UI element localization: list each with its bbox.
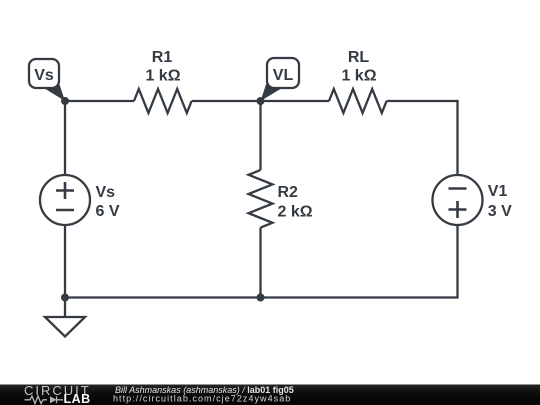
svg-text:Vs: Vs — [34, 67, 54, 84]
wire R1 to node VL — [192, 100, 261, 102]
wire source Vs to bottom node — [64, 225, 66, 298]
svg-text:V1: V1 — [488, 183, 508, 200]
logo schematic squiggle — [25, 396, 64, 404]
voltage source Vs — [40, 175, 90, 225]
resistor R2 — [249, 170, 273, 228]
wire right vertical: corner down to source V1 — [456, 100, 458, 175]
svg-text:3 V: 3 V — [488, 203, 512, 220]
wire left vertical: node Vs down to source Vs — [64, 100, 66, 175]
svg-text:RL: RL — [348, 49, 370, 66]
wire R2 to bottom node — [259, 228, 261, 298]
voltage source V1 — [433, 175, 483, 225]
svg-text:1 kΩ: 1 kΩ — [145, 68, 180, 85]
wire node VL to RL — [261, 100, 330, 102]
svg-text:VL: VL — [273, 67, 294, 84]
resistor R1 — [134, 89, 192, 113]
svg-text:1 kΩ: 1 kΩ — [341, 68, 376, 85]
footer bar — [0, 385, 540, 405]
ground — [45, 298, 85, 337]
svg-text:Vs: Vs — [96, 184, 116, 201]
node dot Vs — [61, 97, 69, 105]
svg-text:R1: R1 — [152, 49, 173, 66]
svg-text:2 kΩ: 2 kΩ — [278, 204, 313, 221]
wire source V1 to bottom right corner — [456, 225, 458, 299]
wire bottom horizontal — [65, 296, 458, 298]
node dot bottom-left — [61, 294, 69, 302]
svg-text:R2: R2 — [278, 184, 299, 201]
node flag Vs — [29, 59, 65, 101]
svg-text:http://circuitlab.com/cje72z4y: http://circuitlab.com/cje72z4yw4sab — [113, 393, 291, 403]
wire RL to right corner — [387, 100, 458, 102]
wire middle vertical: node VL down to R2 — [259, 100, 261, 170]
svg-text:LAB: LAB — [64, 392, 91, 405]
svg-text:6 V: 6 V — [96, 203, 120, 220]
wire top-left: node Vs to R1 — [65, 100, 134, 102]
resistor RL — [329, 89, 387, 113]
node dot VL — [257, 97, 265, 105]
node flag VL — [261, 58, 300, 101]
node dot bottom-middle — [257, 294, 265, 302]
